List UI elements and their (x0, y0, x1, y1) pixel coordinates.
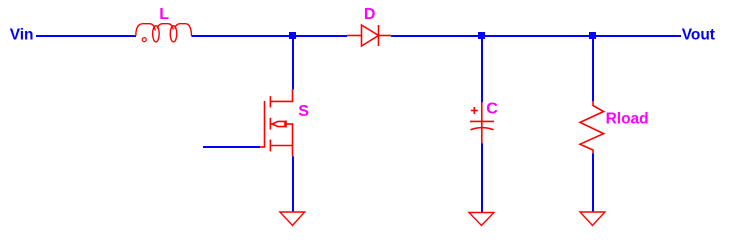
top lead (481, 102, 483, 121)
top plate (470, 120, 494, 122)
source bar (270, 145, 293, 147)
wire resistor to ground (592, 153, 594, 212)
channel tick top (269, 96, 271, 107)
svg-text:S: S (298, 103, 309, 120)
svg-text:Vin: Vin (10, 26, 34, 43)
svg-text:Vout: Vout (682, 26, 715, 43)
wire diode to Vout (391, 35, 681, 37)
cathode lead (379, 35, 392, 37)
source lead (292, 146, 294, 157)
body bar with arrow (270, 123, 273, 125)
wire inductor to node A (192, 35, 348, 37)
wire Vin to inductor (36, 35, 136, 37)
channel tick bottom (269, 140, 271, 152)
anode lead (347, 35, 362, 37)
diode triangle (362, 25, 379, 46)
node C junction (589, 32, 596, 39)
wire node A down to MOSFET drain (292, 36, 294, 90)
node A junction (289, 32, 296, 39)
wire gate drive (203, 146, 260, 148)
polarity plus (471, 110, 478, 112)
svg-text:Rload: Rload (606, 111, 649, 128)
ground (MOSFET source) (280, 212, 305, 226)
svg-text:L: L (159, 6, 169, 23)
wire node B down to capacitor (481, 36, 483, 102)
channel tick middle (269, 118, 271, 130)
node B junction (478, 32, 485, 39)
wire MOSFET source to ground (292, 156, 294, 212)
transistor S (NMOS) (260, 89, 294, 156)
drain lead (292, 89, 294, 101)
ground (capacitor) (469, 213, 494, 226)
curved bottom plate (471, 128, 494, 130)
diode D (347, 25, 391, 46)
gate bar (264, 101, 266, 147)
body-source vertical (292, 124, 294, 146)
svg-text:C: C (486, 100, 498, 117)
inductor L (136, 24, 192, 42)
ground (load) (580, 212, 605, 226)
wire capacitor to ground (481, 143, 483, 212)
wire node C down to resistor (592, 36, 594, 101)
bottom lead (481, 121, 483, 143)
drain bar (270, 100, 293, 102)
capacitor C (470, 102, 494, 143)
inductor phase dot (142, 38, 146, 42)
resistor Rload (580, 101, 604, 153)
gate lead elbow (260, 146, 266, 148)
cathode bar (378, 25, 380, 46)
svg-text:D: D (364, 6, 376, 23)
